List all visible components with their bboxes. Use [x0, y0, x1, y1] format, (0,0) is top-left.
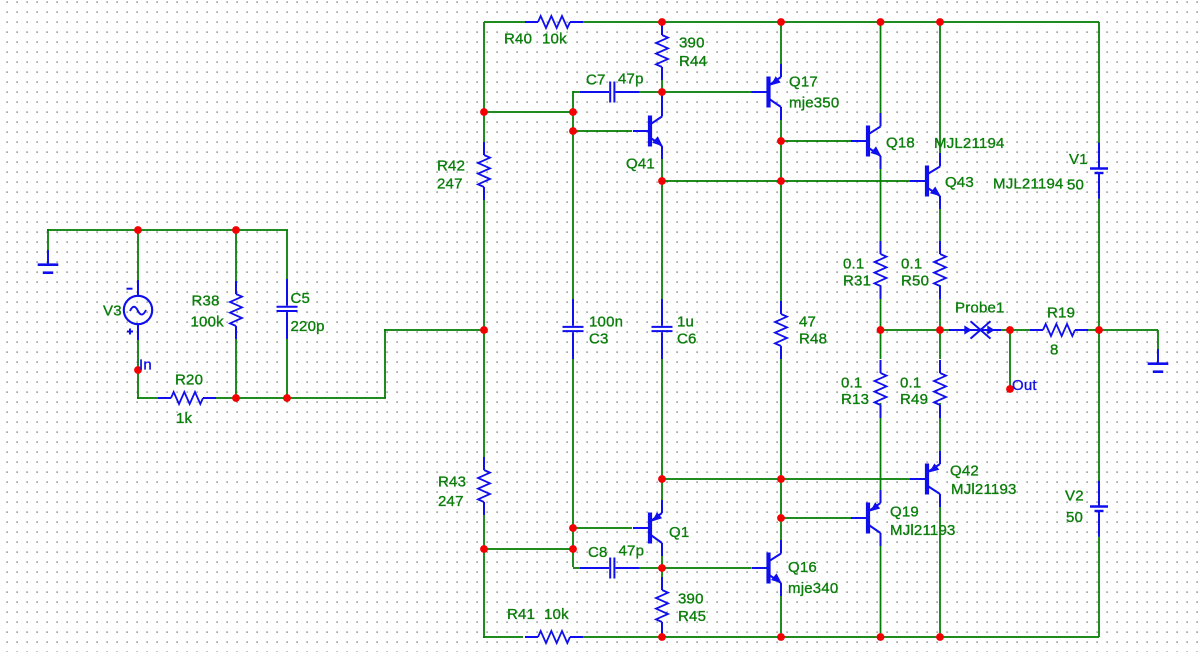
wire wire y141 to Q18 base — [781, 140, 851, 142]
wire column x940 R49 to Q42 — [939, 403, 941, 452]
wire column x880 Q18 emitter to R31 — [880, 168, 882, 241]
resistor R49 — [934, 360, 946, 418]
transistor Q41 (NPN) — [633, 96, 663, 160]
svg-text:MJL21194: MJL21194 — [993, 176, 1064, 193]
svg-text:390: 390 — [678, 591, 704, 608]
wire column x781 j518 to Q16 — [780, 518, 782, 541]
wire jog horizontal y330 — [384, 329, 484, 331]
wire R38 top lead — [235, 230, 237, 282]
wire wire y112 — [484, 111, 573, 113]
junction (781,518) — [777, 514, 785, 522]
svg-text:47p: 47p — [618, 71, 644, 88]
voltage source V3 (sine) — [124, 280, 152, 340]
svg-text:R19: R19 — [1047, 305, 1075, 322]
wire wire y549 — [484, 548, 573, 550]
wire V3 top lead — [137, 230, 139, 281]
wire column x662 C6 to junction — [661, 356, 663, 480]
wire bottom rail right segment — [581, 636, 1099, 638]
junction (880.5,330) — [877, 326, 885, 334]
svg-text:Q19: Q19 — [890, 504, 919, 521]
junction (138,230) — [134, 226, 142, 234]
svg-text:390: 390 — [679, 35, 705, 52]
svg-text:mje350: mje350 — [789, 95, 839, 112]
junction (662,568) — [658, 564, 666, 572]
svg-text:R45: R45 — [678, 608, 706, 625]
resistor R40 — [525, 16, 583, 28]
svg-text:1u: 1u — [677, 314, 694, 331]
svg-text:1k: 1k — [176, 410, 193, 427]
junction (781,141) — [777, 137, 785, 145]
svg-text:V1: V1 — [1069, 151, 1088, 168]
junction (1010,330) — [1006, 326, 1014, 334]
transistor Q18 (NPN) — [851, 113, 881, 169]
resistor R48 — [775, 301, 787, 359]
resistor R42 — [478, 142, 490, 200]
capacitor C6 — [652, 299, 673, 359]
wire Q1 base wire — [573, 527, 632, 529]
capacitor C7 — [579, 82, 639, 103]
svg-text:Q42: Q42 — [950, 463, 979, 480]
junction (573,528) — [569, 524, 577, 532]
svg-text:Q17: Q17 — [789, 74, 818, 91]
wire Q41 base wire — [573, 130, 632, 132]
svg-text:Q43: Q43 — [945, 174, 974, 191]
svg-text:R50: R50 — [901, 273, 929, 290]
node Out marker — [1006, 385, 1014, 393]
svg-text:Out: Out — [1012, 377, 1037, 394]
svg-text:0.1: 0.1 — [841, 375, 862, 392]
svg-text:R40: R40 — [504, 30, 532, 47]
wire V2 bottom lead — [1098, 536, 1100, 637]
junction (236,230) — [232, 226, 240, 234]
svg-text:Q16: Q16 — [788, 559, 817, 576]
junction (880.5,22) — [877, 18, 885, 26]
svg-text:247: 247 — [437, 176, 463, 193]
svg-text:C7: C7 — [586, 72, 606, 89]
wire top rail left segment — [484, 21, 525, 23]
svg-text:Q1: Q1 — [669, 524, 689, 541]
wire V1 bottom lead — [1098, 198, 1100, 331]
svg-text:R42: R42 — [437, 158, 465, 175]
wire C7 right to junction — [638, 91, 663, 93]
resistor R38 — [230, 281, 242, 339]
wire input top rail — [47, 229, 288, 231]
wire C8 right to junction — [638, 567, 663, 569]
svg-text:Q18: Q18 — [886, 135, 915, 152]
junction (662,479) — [658, 475, 666, 483]
svg-text:100n: 100n — [589, 314, 623, 331]
svg-text:R31: R31 — [843, 273, 871, 290]
wire column x781 Q16 emitter to rail — [780, 595, 782, 637]
wire R19 row left — [1010, 329, 1032, 331]
wire top rail right segment — [583, 21, 1099, 23]
junction (662,22) — [658, 18, 666, 26]
wire column x880 R13 to Q19 — [880, 403, 882, 491]
wire column x662 R45 to rail — [661, 634, 663, 637]
wire column x940 Q43 emitter to R50 — [939, 208, 941, 241]
ground right ground — [1148, 349, 1169, 372]
junction (662,637) — [658, 633, 666, 641]
resistor R50 — [934, 241, 946, 299]
transistor Q19 (PNP) — [851, 490, 881, 546]
resistor R41 — [525, 631, 583, 643]
svg-text:R48: R48 — [799, 331, 827, 348]
wire C5 top lead — [286, 230, 288, 292]
junction (662,92) — [658, 88, 666, 96]
junction (573,549) — [569, 545, 577, 553]
wire column x573 top corner h — [573, 91, 579, 93]
wire column x940 Q42 collector to rail — [939, 506, 941, 637]
wire left column x484 upper — [483, 22, 485, 142]
capacitor C8 — [579, 558, 639, 579]
wire column x573 bottom corner h — [573, 567, 579, 569]
wire V2 top lead — [1098, 329, 1100, 481]
wire jog vertical x385 — [384, 329, 386, 398]
wire column x662 Q41 emitter to junction — [661, 158, 663, 182]
wire column x880 Q19 collector to rail — [880, 545, 882, 637]
svg-text:C8: C8 — [588, 544, 608, 561]
svg-text:MJl21193: MJl21193 — [951, 481, 1017, 498]
junction (781,181) — [777, 177, 785, 185]
transistor Q16 (NPN) — [752, 540, 782, 596]
svg-text:0.1: 0.1 — [901, 256, 922, 273]
junction (781,637) — [777, 633, 785, 641]
wire left column x484 lower-mid — [483, 329, 485, 457]
svg-text:R44: R44 — [679, 53, 707, 70]
junction (484,330) — [480, 326, 488, 334]
svg-text:R38: R38 — [192, 293, 220, 310]
wire R19 row right — [1086, 329, 1099, 331]
svg-text:47p: 47p — [619, 543, 645, 560]
wire column x573 upper — [572, 91, 574, 300]
svg-text:R20: R20 — [175, 372, 203, 389]
svg-text:R41: R41 — [507, 606, 535, 623]
svg-text:50: 50 — [1067, 177, 1084, 194]
resistor R19 — [1030, 324, 1088, 336]
wire column x662 R44 bottom — [661, 78, 663, 93]
wire column x662 junction to R45 — [661, 568, 663, 579]
wire column x781 R48 to j479 — [780, 359, 782, 519]
svg-text:In: In — [139, 357, 152, 374]
resistor R45 — [656, 577, 668, 635]
wire C5 bottom lead — [286, 333, 288, 398]
svg-text:R49: R49 — [900, 391, 928, 408]
wire R20 row left — [137, 397, 159, 399]
wire right gnd stub — [1157, 330, 1159, 349]
svg-text:220p: 220p — [291, 318, 325, 335]
wire left column x484 mid — [483, 200, 485, 331]
wire V1 top lead — [1098, 22, 1100, 143]
svg-text:100k: 100k — [191, 314, 225, 331]
wire column x573 lower — [572, 357, 574, 567]
svg-text:mje340: mje340 — [788, 580, 838, 597]
resistor R13 — [875, 360, 887, 418]
wire column x940 R50 to j330 — [939, 285, 941, 331]
junction (940,330) — [936, 326, 944, 334]
junction (940,637) — [936, 633, 944, 641]
svg-text:V2: V2 — [1065, 488, 1084, 505]
wire column x781 j181 to R48 — [780, 181, 782, 301]
wire left column x484 lower — [483, 515, 485, 638]
wire column x880 top — [880, 22, 882, 114]
svg-text:R43: R43 — [438, 474, 466, 491]
junction (287,398) — [283, 394, 291, 402]
junction (781,479) — [777, 475, 785, 483]
svg-text:Q41: Q41 — [626, 156, 655, 173]
wire right gnd horizontal — [1098, 329, 1158, 331]
svg-text:V3: V3 — [103, 303, 122, 320]
transistor Q1 (PNP) — [633, 500, 662, 556]
svg-text:R13: R13 — [841, 391, 869, 408]
svg-text:8: 8 — [1050, 342, 1059, 359]
wire bottom rail left segment — [483, 636, 523, 638]
wire column x662 Q1 collector to junction — [661, 554, 663, 569]
transistor Q43 (NPN) — [910, 153, 941, 209]
wire V3 bottom lead — [137, 339, 139, 399]
voltage source V2 (battery) — [1090, 481, 1108, 537]
resistor R44 — [656, 22, 668, 80]
wire column x880 R31 to j330 — [880, 285, 882, 331]
resistor R43 — [478, 457, 490, 515]
svg-text:MJL21194: MJL21194 — [934, 135, 1005, 152]
wire probe right lead — [1000, 329, 1011, 331]
wire wire y518 Q19 base — [781, 517, 851, 519]
svg-text:47: 47 — [799, 314, 816, 331]
svg-text:10k: 10k — [544, 606, 569, 623]
wire column x940 j330 to R49 — [939, 329, 941, 359]
junction (781,22) — [777, 18, 785, 26]
voltage source V1 (battery) — [1090, 143, 1108, 199]
svg-text:Probe1: Probe1 — [955, 300, 1005, 317]
wire R38 bottom lead — [235, 338, 237, 398]
wire Q16 base wire — [662, 567, 751, 569]
transistor Q17 (PNP) — [752, 64, 782, 120]
svg-text:C3: C3 — [589, 331, 609, 348]
wire column x781 top — [780, 22, 782, 64]
resistor R20 — [158, 392, 216, 404]
svg-text:0.1: 0.1 — [843, 256, 864, 273]
wire wire y330 R31-R50 — [880, 329, 940, 331]
junction (573,112) — [569, 108, 577, 116]
junction (880.5,637) — [877, 633, 885, 641]
capacitor C3 — [563, 299, 584, 359]
svg-text:MJl21193: MJl21193 — [890, 522, 956, 539]
wire left gnd stub — [47, 229, 49, 251]
ground left ground — [38, 250, 59, 273]
wire Q17 base wire — [662, 91, 752, 93]
junction (236,398) — [232, 394, 240, 402]
wire column x662 junction to C6 — [661, 181, 663, 301]
svg-text:247: 247 — [438, 493, 464, 510]
junction (662,181) — [658, 177, 666, 185]
wire column x662 Q1 region top — [661, 479, 663, 502]
wire wire y181 Q43 base — [662, 180, 910, 182]
node In marker — [134, 366, 142, 374]
resistor R31 — [875, 241, 887, 299]
junction (484,112) — [480, 108, 488, 116]
wire R20 row right — [216, 397, 386, 399]
junction (484,549) — [480, 545, 488, 553]
transistor Q42 (PNP) — [910, 451, 940, 507]
svg-text:C5: C5 — [291, 290, 311, 307]
wire out stub — [1009, 330, 1011, 389]
probe Probe1 — [949, 321, 1001, 338]
svg-text:0.1: 0.1 — [900, 375, 921, 392]
wire wire y479 Q42 base — [662, 478, 910, 480]
svg-text:C6: C6 — [677, 331, 697, 348]
wire column x880 j330 to R13 — [880, 329, 882, 359]
junction (1099,330) — [1095, 326, 1103, 334]
svg-text:50: 50 — [1066, 509, 1083, 526]
capacitor C5 — [277, 279, 298, 339]
wire column x940 top — [939, 22, 941, 153]
wire column x781 Q17 collector to j141 — [780, 119, 782, 182]
wire probe left lead — [940, 329, 951, 331]
junction (573,131) — [569, 127, 577, 135]
junction (940,22) — [936, 18, 944, 26]
svg-text:10k: 10k — [542, 30, 567, 47]
